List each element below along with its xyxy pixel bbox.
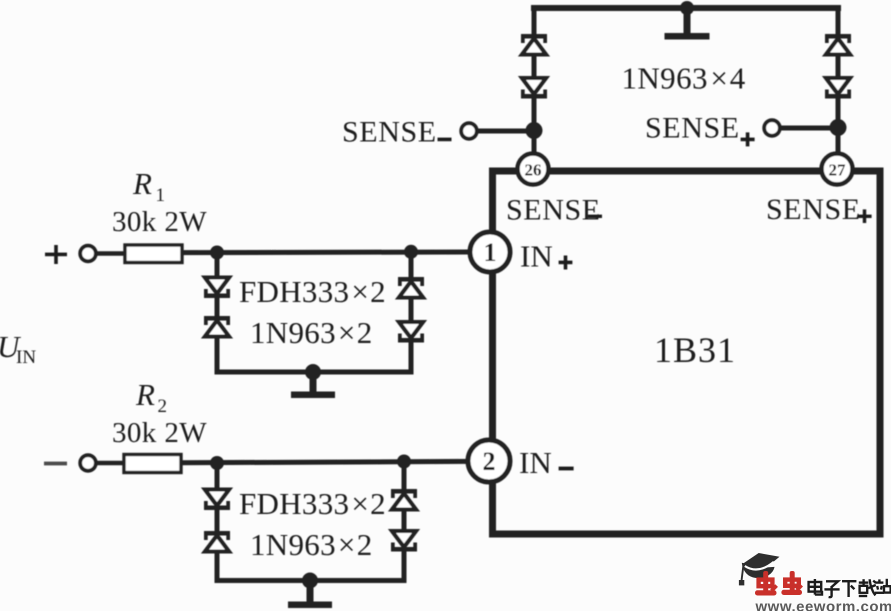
subscript minus of internal SENSE- — [588, 215, 602, 218]
zener diode D12 (1N963, clamp 2 right) — [391, 531, 417, 552]
svg-text:30k 2W: 30k 2W — [112, 417, 207, 449]
junction SENSE- node — [526, 122, 543, 139]
wire clamp1 right column mid — [409, 298, 414, 324]
zener diode D6 (1N963, clamp 1 left) — [204, 316, 230, 337]
terminal + input (open circle) — [80, 246, 96, 262]
junction lower-left of clamp 2 — [210, 456, 224, 470]
wire R1 to IN+ node — [182, 250, 471, 256]
svg-text:R: R — [132, 166, 152, 201]
wire clamp1 left column mid — [215, 297, 220, 317]
wire top-right column mid — [836, 55, 841, 79]
wire clamp1 right column lower — [409, 342, 414, 375]
watermark text zai — [859, 579, 876, 596]
svg-text:SENSE: SENSE — [506, 194, 601, 227]
svg-text:1: 1 — [156, 185, 166, 206]
wire clamp1 left column upper — [215, 253, 220, 280]
wire - terminal to R2 — [95, 461, 126, 466]
wire clamp2 bottom rail — [215, 578, 407, 583]
svg-text:IN: IN — [16, 347, 36, 368]
svg-text:IN: IN — [519, 445, 552, 480]
subscript minus of external SENSE- — [438, 138, 452, 142]
wire clamp2 right column mid — [402, 510, 407, 533]
watermark cap tassel — [739, 565, 744, 586]
ground G2 (clamp 1) — [291, 372, 335, 398]
watermark graduation cap board — [743, 553, 780, 569]
wire SENSE+ terminal to node — [779, 126, 838, 131]
svg-text:1: 1 — [484, 238, 497, 267]
zener diode D4 (1N963, top-right) — [825, 78, 851, 99]
svg-text:FDH333×2: FDH333×2 — [239, 274, 386, 309]
diode D7 (FDH333, clamp 1 right) — [398, 277, 424, 298]
wire top-left column upper — [532, 8, 537, 35]
watermark text xia — [842, 581, 856, 597]
watermark text zi — [824, 581, 839, 597]
subscript plus of internal SENSE+ — [858, 209, 872, 223]
minus polarity mark of U_IN — [44, 462, 67, 466]
watermark graduation cap body — [742, 563, 775, 578]
wire top-right column lower — [836, 98, 841, 156]
wire clamp1 right column upper — [409, 252, 414, 278]
wire top-left column lower — [532, 98, 537, 156]
svg-text:1B31: 1B31 — [654, 330, 736, 370]
wire top-right column upper — [836, 8, 841, 35]
pin 2 circle (IN-) — [468, 440, 510, 482]
wire clamp2 right column upper — [402, 462, 407, 491]
svg-text:26: 26 — [525, 161, 542, 180]
svg-text:IN: IN — [520, 239, 553, 274]
plus polarity mark of U_IN — [45, 245, 67, 264]
svg-text:R: R — [135, 377, 155, 412]
junction clamp1 ground node — [305, 364, 321, 380]
wire clamp1 left column lower — [215, 337, 220, 375]
wire top bus — [531, 5, 841, 11]
pin 26 circle — [518, 154, 549, 185]
junction upper-right of clamp 1 — [404, 245, 418, 259]
pin 27 circle — [822, 154, 853, 185]
subscript minus of IN- — [559, 467, 574, 471]
resistor R2 body (30k 2W) — [124, 455, 181, 473]
wire R2 to IN- node — [181, 461, 469, 462]
svg-text:FDH333×2: FDH333×2 — [239, 486, 386, 521]
svg-text:www.eeworm.com: www.eeworm.com — [755, 598, 891, 611]
zener diode D2 (1N963, top-left) — [521, 78, 547, 99]
watermark text zhan — [875, 579, 891, 593]
watermark chong character 1 (red) — [755, 571, 777, 596]
watermark cap white stripe — [745, 562, 774, 570]
zener diode D3 (1N963, top-right) — [825, 34, 851, 55]
wire clamp2 left column upper — [215, 463, 220, 491]
junction upper-left of clamp 1 — [210, 246, 224, 260]
diode D5 (FDH333, clamp 1 left) — [204, 278, 230, 299]
wire SENSE- terminal to node — [476, 129, 534, 134]
resistor R1 body (30k 2W) — [125, 245, 182, 263]
svg-text:27: 27 — [829, 161, 847, 180]
wire + terminal to R1 — [95, 251, 126, 256]
wire clamp2 right column lower — [402, 551, 407, 584]
wire clamp1 bottom rail — [215, 370, 414, 375]
svg-text:2: 2 — [158, 396, 168, 417]
diode D11 (FDH333, clamp 2 right) — [391, 489, 417, 510]
zener diode D1 (1N963, top-left) — [521, 34, 547, 55]
zener diode D8 (1N963, clamp 1 right) — [398, 322, 424, 343]
terminal SENSE- (open circle) — [461, 123, 477, 139]
junction SENSE+ node — [830, 119, 847, 136]
svg-text:SENSE: SENSE — [766, 193, 861, 226]
svg-text:30k 2W: 30k 2W — [112, 206, 207, 238]
svg-text:SENSE: SENSE — [342, 116, 437, 149]
ground G3 (clamp 2) — [288, 581, 332, 609]
svg-text:1N963×2: 1N963×2 — [250, 315, 373, 350]
subscript plus of external SENSE+ — [741, 132, 755, 146]
junction clamp2 ground node — [302, 573, 318, 589]
wire clamp2 left column lower — [215, 552, 220, 584]
wire clamp2 left column mid — [215, 509, 220, 532]
svg-text:1N963×4: 1N963×4 — [622, 61, 746, 96]
IC U1 1B31 box — [493, 171, 881, 534]
zener diode D10 (1N963, clamp 2 left) — [204, 531, 230, 552]
svg-text:1N963×2: 1N963×2 — [250, 527, 373, 562]
pin 1 circle (IN+) — [470, 232, 510, 272]
watermark chong character 2 (red) — [781, 571, 802, 595]
svg-text:2: 2 — [483, 447, 496, 476]
diode D9 (FDH333, clamp 2 left) — [204, 490, 230, 511]
junction top-center — [680, 1, 694, 15]
wire top-left column mid — [532, 55, 537, 79]
terminal SENSE+ (open circle) — [764, 120, 780, 136]
terminal - input (open circle) — [80, 455, 96, 471]
watermark text dian (electronics) — [809, 579, 822, 595]
ground G1 (top) — [665, 8, 710, 40]
junction lower-right of clamp 2 — [397, 455, 411, 469]
svg-text:SENSE: SENSE — [645, 112, 740, 145]
subscript plus of IN+ — [559, 256, 573, 270]
